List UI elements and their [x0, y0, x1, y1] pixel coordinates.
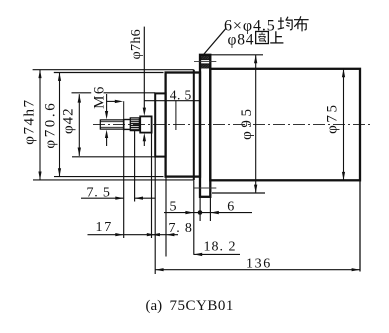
svg-text:75CYB01: 75CYB01: [170, 298, 234, 314]
svg-text:φ70.6: φ70.6: [43, 101, 59, 149]
svg-text:4. 5: 4. 5: [170, 87, 192, 102]
svg-text:136: 136: [246, 256, 272, 271]
svg-text:7. 8: 7. 8: [169, 221, 193, 236]
svg-text:17: 17: [96, 220, 114, 235]
svg-text:6: 6: [227, 199, 234, 214]
svg-text:φ95: φ95: [239, 105, 255, 139]
svg-text:φ75: φ75: [325, 102, 341, 133]
svg-text:18. 2: 18. 2: [204, 240, 237, 255]
svg-text:7. 5: 7. 5: [87, 185, 111, 200]
svg-text:(a): (a): [146, 298, 163, 314]
svg-text:φ7h6: φ7h6: [129, 29, 144, 59]
svg-text:φ84: φ84: [228, 31, 255, 48]
svg-text:5: 5: [170, 200, 177, 215]
svg-text:φ42: φ42: [60, 107, 76, 134]
svg-text:M6: M6: [91, 85, 107, 109]
svg-text:φ74h7: φ74h7: [22, 99, 38, 145]
